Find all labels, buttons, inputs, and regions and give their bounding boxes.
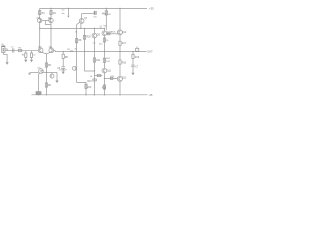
resistor R21 (driver top emitter): [103, 38, 105, 42]
svg-text:C1: C1: [11, 46, 15, 48]
svg-text:Q13: Q13: [122, 77, 127, 79]
svg-text:L1: L1: [136, 47, 138, 49]
node (bootstrap tap): [84, 51, 85, 52]
svg-text:OUT: OUT: [147, 50, 153, 54]
svg-text:220: 220: [87, 87, 92, 89]
transistor Q7 (VAS): [79, 19, 84, 24]
ground (zobel): [131, 73, 134, 76]
ground (C2): [30, 60, 33, 63]
wire (output top emitter): [119, 35, 121, 41]
output/feedback wire: [55, 51, 146, 53]
wire (tail): [45, 54, 47, 95]
svg-text:R3: R3: [42, 13, 46, 15]
svg-text:R4: R4: [53, 13, 57, 15]
node (zobel tap): [132, 51, 133, 52]
node (-rail x46.4): [46, 94, 47, 95]
node (mid wire left): [39, 28, 40, 29]
resistor R4 (mirror emitter right): [50, 11, 52, 15]
ground (R1): [24, 60, 27, 63]
wire (driver column): [103, 28, 105, 31]
wire (feedback leg): [62, 52, 64, 55]
wire (driver top collector from rail): [105, 8, 107, 30]
transistor Q13 (output bottom): [117, 76, 122, 81]
svg-text:220: 220: [108, 14, 111, 16]
wire (LTP emitters to tail): [41, 52, 50, 54]
current source arrow (rail): [67, 8, 69, 15]
inductor L1 (on output wire): [136, 49, 139, 52]
wire (output column top): [119, 8, 121, 29]
wire (branch down): [56, 72, 58, 80]
node (mid wire bias): [94, 28, 95, 29]
wire (zobel leg): [132, 52, 134, 55]
svg-text:1k: 1k: [106, 40, 109, 42]
wire (miller cap line): [82, 13, 94, 15]
wire (top output base line): [106, 33, 117, 35]
svg-text:R20: R20: [87, 37, 92, 39]
transistor Q8 (on VAS emitter line): [72, 66, 76, 70]
node (-rail x120): [119, 94, 120, 95]
wire (mirror diode jog): [45, 20, 51, 24]
svg-text:R13: R13: [102, 87, 107, 89]
transistor Q9 (bias spreader): [92, 33, 97, 38]
input wire: [7, 50, 38, 52]
svg-text:R12: R12: [106, 58, 111, 60]
svg-text:Q12: Q12: [122, 32, 127, 34]
node (tail / CS junction): [46, 72, 47, 73]
transistor Q1 (current mirror left): [38, 18, 42, 22]
capacitor C3 (feedback): [61, 66, 65, 68]
svg-text:R9: R9: [78, 40, 82, 42]
node (-rail x86): [85, 94, 86, 95]
component (Q5 emitter box): [36, 92, 41, 95]
wire (bias column top): [93, 28, 95, 33]
resistor R14 (on collector feed): [105, 11, 107, 15]
wire (output bottom collector): [119, 81, 121, 94]
svg-text:R15: R15: [111, 31, 116, 33]
wire (Q5 base line left): [30, 71, 39, 73]
node (-rail x38.5): [38, 94, 39, 95]
capacitor C7 (zobel): [131, 64, 135, 66]
resistor R3 (mirror emitter left): [39, 11, 41, 15]
svg-text:100: 100: [106, 61, 110, 63]
mid wire (mirror output to VAS): [40, 27, 105, 29]
svg-text:4m: 4m: [62, 13, 65, 15]
resistor R1 (shunt to gnd): [25, 51, 27, 53]
svg-text:R5: R5: [48, 65, 52, 67]
component (box on driver2 base line): [97, 75, 101, 77]
resistor R11 (bias): [93, 58, 95, 62]
resistor R18 (emitter bottom): [119, 60, 121, 64]
svg-text:R10: R10: [87, 81, 92, 83]
ground (feedback): [62, 72, 65, 75]
svg-text:Q9: Q9: [97, 35, 101, 37]
wire (VAS collector up): [81, 14, 83, 19]
wire (Q1 collector down): [39, 23, 41, 48]
svg-text:C4: C4: [62, 10, 66, 12]
node (mid wire right mirror): [50, 28, 51, 29]
transistor Q12 (output top): [117, 30, 122, 35]
transistor Q3 (LTP left): [38, 48, 43, 53]
svg-text:1k: 1k: [75, 31, 78, 33]
jack ground wire: [3, 53, 7, 63]
resistor R12 (driver): [103, 58, 105, 62]
resistor R20 (VAS load): [84, 35, 86, 39]
wire (VAS emitter): [77, 23, 80, 25]
svg-text:Q7: Q7: [84, 18, 88, 20]
transistor Q6 (CS reference): [51, 72, 53, 74]
resistor R5 (tail upper): [45, 63, 47, 67]
svg-text:2k2: 2k2: [99, 43, 103, 45]
node (-rail x94.4): [94, 94, 95, 95]
svg-text:100: 100: [93, 16, 97, 18]
node (rail x107): [106, 8, 107, 9]
transistor Q4 (LTP right): [49, 48, 54, 53]
resistor R6 (tail lower): [45, 83, 47, 87]
node (-rail x104.4): [104, 94, 105, 95]
resistor R13: [103, 85, 105, 89]
node (driver column top): [104, 28, 105, 29]
node (rail x51): [50, 8, 51, 9]
resistor R19 (zobel): [132, 54, 134, 58]
wire (corner to R10): [77, 82, 86, 94]
wire (bootstrap leg): [85, 28, 95, 71]
svg-text:1W: 1W: [103, 25, 106, 27]
transistor Q5 (tail current source): [39, 69, 44, 74]
transistor Q10 (driver top): [102, 31, 107, 36]
resistor R16 (on base line): [110, 77, 113, 79]
capacitor C5 (miller): [93, 11, 95, 15]
resistor R15 (on base line): [108, 33, 110, 35]
wire (mirror base link): [42, 19, 49, 21]
svg-text:-35: -35: [149, 93, 153, 97]
ground (CS branch): [55, 81, 58, 84]
wire (driver emitters column): [103, 36, 105, 69]
wire (Q4 base to output wire): [54, 51, 56, 52]
wire (Q5 collector to tail): [43, 71, 46, 73]
wire (bias to driver 2 base): [94, 75, 102, 77]
+V rail: [40, 7, 147, 9]
transistor Q2 (current mirror right): [49, 18, 53, 22]
svg-text:R18: R18: [122, 63, 127, 65]
svg-text:C2: C2: [33, 55, 37, 57]
input jack J1: [2, 46, 5, 53]
svg-text:56: 56: [90, 76, 93, 78]
node (rail x120): [119, 8, 120, 9]
svg-text:R16: R16: [110, 76, 115, 78]
resistor R2 (series input): [18, 50, 22, 52]
svg-text:R19: R19: [135, 57, 140, 59]
wire (VAS base down): [80, 23, 82, 28]
wire (bottom output base line): [104, 77, 117, 79]
svg-text:R6: R6: [48, 85, 52, 87]
resistor R17 (emitter top): [119, 41, 121, 45]
wire (Q2 collector down): [50, 23, 52, 48]
wire (CS bias branch right): [46, 71, 57, 73]
component (bias lower marks): [93, 79, 96, 81]
svg-text:22k: 22k: [70, 50, 73, 52]
wire (bias column): [93, 38, 95, 95]
resistor R9 (VAS emitter): [76, 39, 78, 43]
transistor Q11 (driver bottom): [102, 68, 107, 73]
wire (right mirror column): [50, 8, 52, 18]
svg-text:R17: R17: [122, 43, 127, 45]
node (feedback tap): [63, 51, 64, 52]
svg-text:Q11: Q11: [107, 71, 112, 73]
wire (left mirror column): [39, 8, 41, 18]
ground (jack): [6, 62, 9, 65]
svg-text:C7: C7: [135, 66, 139, 68]
resistor R8 (feedback shunt): [62, 54, 64, 58]
svg-text:R11: R11: [96, 60, 101, 62]
capacitor C2 (shunt to gnd): [31, 51, 33, 53]
reference marks (base bias): [28, 72, 30, 74]
wire (Q5 emitter down): [39, 73, 40, 92]
wire (driver bottom down): [103, 73, 105, 95]
svg-text:R8: R8: [65, 57, 69, 59]
node (rail x68): [68, 8, 69, 9]
-V rail: [32, 94, 148, 96]
svg-text:+35: +35: [149, 6, 154, 10]
capacitor C1 (series input): [11, 48, 13, 52]
svg-text:2k: 2k: [74, 49, 77, 51]
resistor R10: [85, 84, 87, 88]
